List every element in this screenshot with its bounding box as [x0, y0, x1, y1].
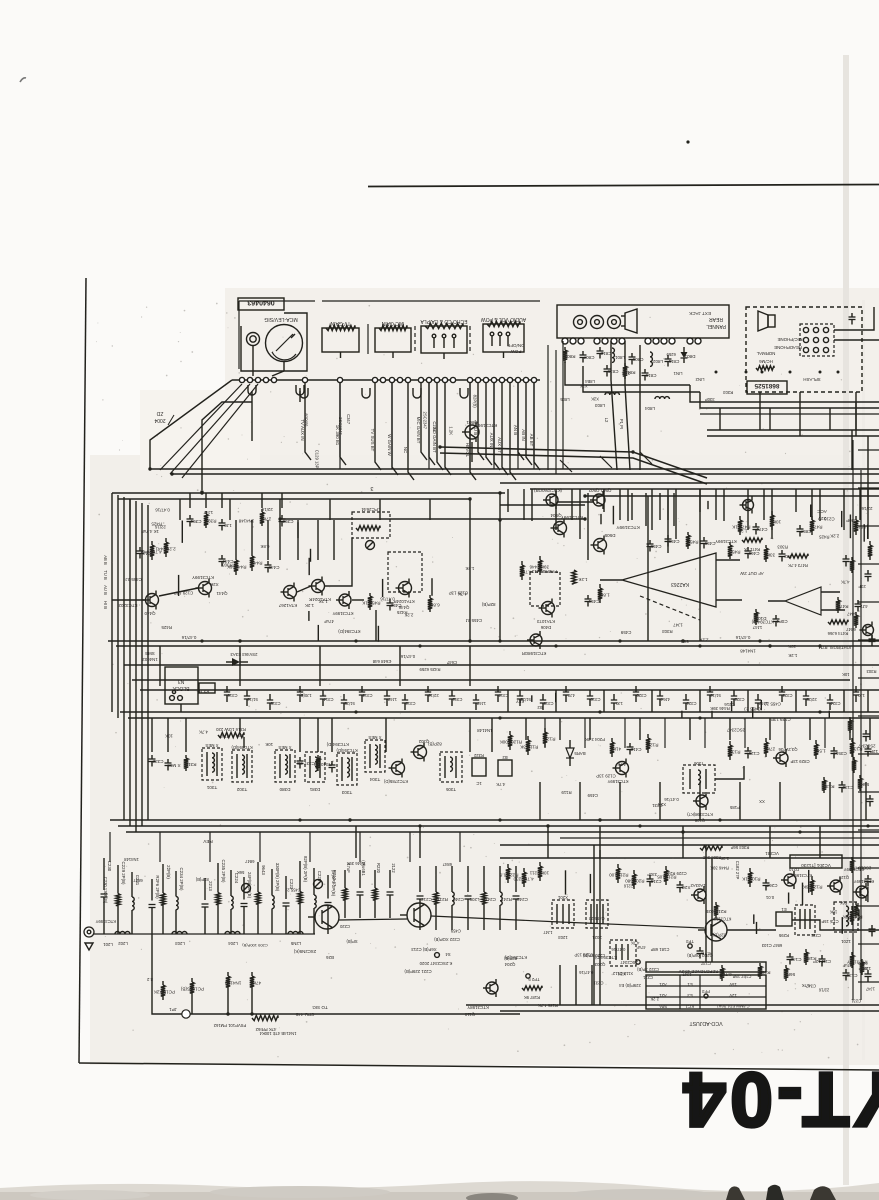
svg-text:R217: R217: [437, 897, 448, 902]
op-amp U402: [785, 587, 821, 615]
transformer T301: [202, 748, 222, 780]
svg-text:0.47/16: 0.47/16: [735, 635, 750, 640]
svg-text:2004: 2004: [154, 417, 165, 423]
svg-text:Q501 Q502: Q501 Q502: [588, 488, 611, 493]
svg-text:LIN1: LIN1: [673, 371, 683, 376]
svg-text:R119: R119: [561, 790, 572, 795]
svg-text:R123: R123: [544, 737, 555, 742]
wire right col 1: [852, 440, 854, 1000]
svg-text:R322: R322: [473, 753, 484, 758]
wire stub: [310, 549, 312, 562]
inductor L204: [225, 932, 240, 935]
resistor R119: [527, 736, 529, 740]
jack RCA J2: [591, 316, 604, 329]
speaker SP1: [625, 309, 637, 333]
svg-text:1J47: 1J47: [387, 697, 397, 702]
wire meter feed: [202, 402, 252, 490]
wire drop 17: [526, 383, 532, 465]
riser group F: [525, 718, 527, 740]
block VC201 LT1230: [790, 855, 842, 868]
transistor Q110: [486, 982, 498, 994]
svg-text:0.47/16: 0.47/16: [579, 970, 594, 975]
resistor R211 10K: [539, 862, 541, 866]
svg-text:C319: C319: [590, 697, 601, 702]
resistor R123: [544, 728, 546, 732]
capacitor C460: [747, 547, 749, 551]
resistor R101 1K: [749, 868, 751, 872]
svg-text:1J0(B): 1J0(B): [299, 693, 312, 698]
resistor R120A: [509, 731, 511, 735]
svg-text:MCA-LEV/SIG: MCA-LEV/SIG: [264, 316, 297, 322]
svg-text:56K: 56K: [681, 639, 689, 644]
svg-text:C471: C471: [756, 527, 767, 532]
svg-text:XX: XX: [759, 799, 765, 804]
svg-text:VC2B1: VC2B1: [765, 851, 779, 856]
wire cross op3: [667, 496, 669, 553]
svg-text:4.7K: 4.7K: [199, 729, 208, 734]
separator dash 1: [367, 324, 369, 354]
wire stub: [810, 505, 812, 518]
svg-text:C221 229P(B): C221 229P(B): [404, 969, 432, 974]
capacitor row 22/25: [805, 690, 807, 696]
wire drop 8: [437, 383, 443, 470]
svg-text:R129: R129: [647, 743, 658, 748]
transistor Q440 KTC3202: [146, 594, 159, 607]
wire cross op2: [699, 489, 701, 641]
wire drop 14: [502, 383, 508, 475]
switch S801: [432, 334, 436, 338]
svg-text:R457: R457: [687, 540, 698, 545]
wire drop 7: [429, 383, 435, 465]
svg-text:1N4148: 1N4148: [477, 728, 493, 733]
tuner part R241: [499, 866, 501, 892]
wire q440 net: [112, 599, 145, 601]
wire top feed: [150, 380, 232, 469]
resistor RH2: [788, 554, 808, 558]
wire stub: [181, 521, 183, 543]
resistor R473: [811, 516, 813, 520]
riser group D: [523, 489, 525, 520]
capacitor row C318: [542, 694, 544, 700]
wire lv3: [705, 845, 707, 962]
svg-text:R303 56P: R303 56P: [730, 845, 749, 850]
svg-text:C231: C231: [850, 998, 861, 1003]
wire stub: [863, 524, 865, 541]
svg-text:X M63: X M63: [167, 763, 181, 768]
svg-text:P204 3.2K: P204 3.2K: [585, 737, 605, 742]
svg-text:N3: N3: [178, 678, 185, 684]
resistor R2F6 left: [162, 981, 164, 985]
svg-text:TP3: TP3: [685, 939, 693, 944]
bus rail J2: [118, 825, 879, 827]
transformer T304: [365, 740, 385, 772]
resistor RE13: [851, 952, 853, 955]
svg-text:R425: R425: [151, 521, 162, 526]
bus rail G2: [116, 645, 879, 647]
rail-to-forest connectors: [109, 832, 111, 862]
wire lv1: [593, 845, 595, 1005]
svg-text:C332: C332: [152, 759, 163, 764]
svg-text:C220: C220: [339, 924, 350, 929]
resistor R471: [739, 516, 741, 520]
mic block inner box: [800, 324, 834, 356]
svg-text:2122: 2122: [391, 863, 396, 873]
svg-text:KTC3199Y: KTC3199Y: [607, 779, 628, 784]
capacitor C137: [699, 947, 701, 951]
svg-text:10K: 10K: [842, 672, 850, 677]
riser col x470: [469, 499, 471, 641]
riser wires g1: [189, 493, 191, 508]
resistor R170: [861, 959, 863, 962]
wire drop 10: [470, 383, 476, 480]
svg-text:C209 100P(B): C209 100P(B): [242, 943, 268, 948]
capacitor C451: [587, 595, 589, 599]
wire stub: [828, 711, 830, 718]
transformer T307: [305, 752, 325, 782]
svg-text:1K: 1K: [361, 601, 368, 606]
svg-text:330P(B) 2P(B): 330P(B) 2P(B): [275, 863, 280, 892]
resistor RE5: [849, 717, 851, 720]
svg-text:R303: R303: [866, 669, 877, 674]
tuner part C223: [285, 876, 287, 899]
svg-text:T302: T302: [236, 787, 247, 792]
resistor R168 47K: [721, 965, 723, 968]
svg-text:C812: C812: [600, 351, 611, 356]
resistor R122 56K: [811, 876, 813, 880]
svg-text:C130: C130: [846, 973, 857, 978]
svg-text:E1: E1: [687, 982, 693, 987]
svg-text:4J64: 4J64: [660, 697, 670, 702]
svg-text:P185: P185: [729, 805, 740, 810]
svg-text:C230: C230: [107, 861, 112, 872]
capacitor C441: [139, 547, 141, 551]
wire stub: [711, 711, 713, 718]
svg-text:0.47/16: 0.47/16: [181, 635, 196, 640]
svg-text:T301: T301: [206, 785, 217, 790]
wire rb1: [719, 408, 721, 430]
box R295: [776, 912, 792, 926]
bus rail H1: [124, 664, 879, 666]
wire pc101 bus: [191, 997, 193, 1014]
svg-text:(KTC3260GR): (KTC3260GR): [533, 488, 562, 493]
svg-text:AUX IN: AUX IN: [489, 433, 494, 448]
svg-text:1Z01: 1Z01: [840, 939, 850, 944]
border bottom: [79, 1063, 879, 1070]
rail D drop wires: [507, 489, 509, 512]
svg-text:KTA1267: KTA1267: [278, 603, 297, 608]
svg-text:2.2K: 2.2K: [699, 637, 708, 642]
svg-text:1.8K: 1.8K: [599, 593, 609, 598]
rear panel pins: [562, 338, 568, 344]
svg-text:2SV463 E3A3: 2SV463 E3A3: [230, 652, 258, 657]
resistor R131: [729, 741, 731, 745]
svg-text:EXT JACK: EXT JACK: [688, 311, 711, 316]
transistor Q446 KTA1024R: [399, 582, 412, 595]
svg-text:10K: 10K: [788, 644, 796, 649]
resistor RE3: [855, 612, 857, 615]
svg-text:A21: A21: [659, 982, 667, 987]
capacitor C444: [221, 555, 223, 559]
svg-text:C811: C811: [668, 359, 679, 364]
svg-text:R303: R303: [662, 629, 673, 634]
svg-text:56P: 56P: [787, 972, 795, 977]
svg-text:NORMAL: NORMAL: [756, 351, 775, 356]
svg-text:C231: C231: [432, 421, 437, 432]
svg-text:C455 2J: C455 2J: [125, 577, 141, 582]
svg-text:C129 13P: C129 13P: [314, 450, 319, 469]
svg-text:R446: R446: [529, 565, 540, 570]
svg-text:82P(B): 82P(B): [303, 413, 308, 427]
svg-text:1J47: 1J47: [673, 623, 683, 628]
capacitor C815: [606, 365, 608, 369]
svg-text:2.2K: 2.2K: [830, 533, 839, 538]
wire drop 1: [305, 383, 311, 460]
svg-text:AN B: AN B: [513, 425, 518, 435]
svg-text:X2K: X2K: [236, 733, 244, 738]
svg-text:51/25: 51/25: [344, 701, 355, 706]
tuner part 22P(B): [162, 864, 164, 893]
resistor RH1: [742, 538, 762, 542]
svg-text:L201: L201: [103, 942, 113, 947]
svg-text:C267: C267: [766, 883, 777, 888]
svg-text:D406: D406: [540, 625, 551, 630]
capacitor C229b: [679, 881, 681, 885]
svg-text:1203: 1203: [558, 935, 568, 940]
svg-text:R458: R458: [729, 550, 740, 555]
wire stub: [867, 525, 869, 539]
wire stub: [753, 914, 755, 924]
op-amp U401 leads: [716, 559, 740, 561]
capacitor C809: [631, 353, 633, 357]
svg-text:82P(B) 2P(B): 82P(B) 2P(B): [303, 856, 308, 883]
svg-text:C222 XOP(B): C222 XOP(B): [434, 937, 460, 942]
svg-text:4J7: 4J7: [567, 693, 574, 698]
capacitor row 4J7: [565, 686, 567, 692]
svg-text:VC2b1 [T1230: VC2b1 [T1230: [801, 863, 831, 868]
wire drop 4: [392, 383, 398, 475]
svg-text:KTC3199Y: KTC3199Y: [711, 916, 732, 921]
bus rail G1: [108, 640, 879, 642]
resistor R392: [261, 509, 263, 512]
svg-text:0.47/16: 0.47/16: [400, 654, 415, 659]
resistor RE9: [851, 857, 853, 860]
svg-text:1.2K: 1.2K: [465, 566, 474, 571]
svg-text:PSVP101 PM162: PSVP101 PM162: [213, 1023, 246, 1028]
svg-text:2SC2347: 2SC2347: [726, 728, 745, 733]
capacitor row 22/16: [427, 686, 429, 692]
svg-text:AU B: AU B: [103, 585, 108, 595]
svg-text:6847: 6847: [442, 862, 452, 867]
svg-text:R101: R101: [749, 877, 760, 882]
pot trimmer VR44: [366, 541, 375, 550]
svg-text:2SC2347: 2SC2347: [620, 960, 638, 965]
svg-text:C314: C314: [323, 697, 334, 702]
dashed box X202: [586, 900, 608, 928]
meter block outline: [241, 313, 307, 371]
label L804: [655, 397, 669, 399]
svg-text:4.7K: 4.7K: [631, 941, 640, 946]
resistor R511: [855, 516, 857, 520]
svg-text:C455 2J: C455 2J: [765, 701, 781, 706]
wire cross op1: [647, 496, 649, 641]
svg-text:47uF: 47uF: [324, 619, 334, 624]
capacitor C143: [821, 955, 823, 959]
svg-text:AB IN: AB IN: [521, 429, 526, 440]
svg-text:VCO-ADJUST: VCO-ADJUST: [689, 1020, 723, 1026]
tuner part L209: [467, 866, 469, 892]
svg-text:C829 13P: C829 13P: [790, 759, 809, 764]
bus rail C1: [707, 429, 879, 431]
svg-text:C221: C221: [642, 975, 653, 980]
svg-text:X2K: X2K: [618, 971, 626, 976]
svg-text:R303: R303: [222, 563, 233, 568]
pot VR802 MIC GAIN: [375, 328, 411, 352]
svg-text:1K: 1K: [741, 877, 748, 882]
svg-text:1A03A2: 1A03A2: [690, 883, 706, 888]
wire stub: [802, 883, 804, 905]
bus rail I2: [128, 717, 879, 719]
wire diag a: [160, 384, 242, 470]
svg-text:47uF: 47uF: [842, 963, 852, 968]
wire drop full group: [339, 383, 341, 469]
zig R304: [700, 846, 722, 850]
dashed box X201: [552, 900, 574, 928]
bus rail N3: [500, 504, 585, 506]
svg-text:3: 3: [370, 485, 373, 491]
wire drop 6: [421, 383, 427, 460]
svg-text:KTC3199Y: KTC3199Y: [615, 524, 639, 530]
resistor R447: [251, 552, 253, 556]
svg-text:R122: R122: [811, 885, 822, 890]
svg-text:R450: R450: [369, 601, 380, 606]
tuner part C240: [451, 866, 453, 892]
section2 risers right: [544, 718, 546, 748]
capacitor row 1J0: [613, 694, 615, 700]
svg-text:C456: C456: [668, 539, 679, 544]
bus rail H2: [132, 679, 850, 681]
wire stub: [731, 701, 733, 711]
resistor R458: [729, 542, 731, 545]
svg-text:R447: R447: [251, 561, 262, 566]
svg-text:T305: T305: [445, 787, 456, 792]
resistor R171 56P: [785, 965, 787, 968]
svg-text:C648 648: C648 648: [372, 659, 391, 664]
svg-text:L202: L202: [118, 941, 128, 946]
jack RCA J3: [608, 316, 621, 329]
pot VR801 TV-GAIN: [322, 328, 359, 352]
svg-text:D505: D505: [604, 533, 615, 538]
svg-text:4.7K: 4.7K: [841, 580, 850, 585]
svg-text:C459: C459: [587, 793, 598, 798]
capacitor C133: [841, 781, 843, 785]
svg-text:1.2K: 1.2K: [319, 599, 328, 604]
capacitor C130b: [833, 747, 835, 751]
svg-text:MIC GAIN BT: MIC GAIN BT: [416, 417, 421, 444]
transistor Q210: [784, 874, 796, 886]
svg-text:C316: C316: [227, 693, 238, 698]
transistor Q442: [284, 586, 297, 599]
wire hook b1: [560, 460, 572, 472]
svg-text:C216: C216: [824, 516, 835, 521]
capacitor C812: [599, 347, 601, 351]
capacitor row C314: [322, 690, 324, 696]
wire stub: [752, 707, 754, 718]
svg-text:C229 2P(B): C229 2P(B): [121, 862, 126, 885]
svg-text:C181 68P: C181 68P: [650, 947, 669, 952]
svg-text:C242: C242: [517, 897, 528, 902]
svg-text:KTC394(D): KTC394(D): [326, 742, 349, 747]
wire panel drop 1: [547, 345, 549, 470]
svg-text:82P(B): 82P(B): [503, 956, 517, 961]
svg-text:100: 100: [609, 873, 617, 878]
wire drop 5: [408, 383, 414, 480]
svg-text:T304: T304: [369, 777, 380, 782]
svg-text:82P(B): 82P(B): [428, 741, 442, 746]
section2 risers: [151, 718, 153, 752]
svg-text:E3: E3: [687, 993, 693, 998]
wire stub: [841, 917, 843, 934]
tuner part 47uF: [344, 870, 346, 888]
tuner part R217: [435, 866, 437, 892]
capacitor C811: [667, 355, 669, 359]
bus bend B1: [440, 447, 707, 478]
junction dots rail: [438, 445, 441, 448]
resistor RE8: [869, 795, 871, 799]
svg-text:B2: B2: [537, 705, 543, 710]
svg-text:C412: C412: [630, 747, 641, 752]
svg-text:R473: R473: [811, 525, 822, 530]
wire drop 11: [478, 383, 484, 460]
dashed block LPC2644: [352, 512, 390, 538]
wire n3 drop: [180, 704, 182, 712]
svg-text:LIN2: LIN2: [695, 377, 705, 382]
svg-text:L801: L801: [614, 355, 625, 360]
wire lv2: [599, 850, 601, 1005]
svg-text:X2K: X2K: [153, 990, 163, 995]
svg-text:1J47: 1J47: [203, 510, 213, 515]
svg-text:82P(B): 82P(B): [481, 602, 495, 607]
svg-text:K.2SC2347 2020: K.2SC2347 2020: [419, 961, 452, 966]
capacitor C130: [845, 969, 847, 973]
transistor Q441 KTC3199Y: [199, 582, 212, 595]
svg-text:22/16: 22/16: [428, 693, 439, 698]
svg-text:1J47: 1J47: [865, 986, 875, 991]
resistor RE10: [867, 875, 869, 879]
svg-text:R391: R391: [205, 519, 216, 524]
dashed box L207: [834, 902, 858, 932]
op-amp U401 KA2263: [622, 553, 716, 607]
svg-text:22/16: 22/16: [861, 506, 873, 511]
mic block dots: [715, 371, 718, 374]
switch S4: [435, 953, 440, 958]
stray dot: [686, 140, 689, 143]
wire rear drop 2: [625, 341, 630, 470]
wire stub: [858, 909, 860, 920]
svg-text:C129 13P: C129 13P: [596, 774, 616, 779]
resistor R169: [759, 963, 761, 966]
bus rail M2: [500, 1010, 879, 1012]
svg-text:LPC2644: LPC2644: [361, 507, 381, 512]
svg-text:Q302: Q302: [418, 739, 429, 744]
bus rail D2: [530, 488, 879, 490]
svg-text:R136: R136: [823, 784, 834, 789]
diode D107 OR2W: [566, 748, 574, 758]
svg-text:NC: NC: [403, 447, 408, 453]
svg-text:1K: 1K: [731, 525, 738, 530]
antenna connector J201: [84, 927, 94, 937]
svg-text:C129 13P: C129 13P: [174, 591, 194, 596]
tuner part C229: [117, 865, 119, 894]
